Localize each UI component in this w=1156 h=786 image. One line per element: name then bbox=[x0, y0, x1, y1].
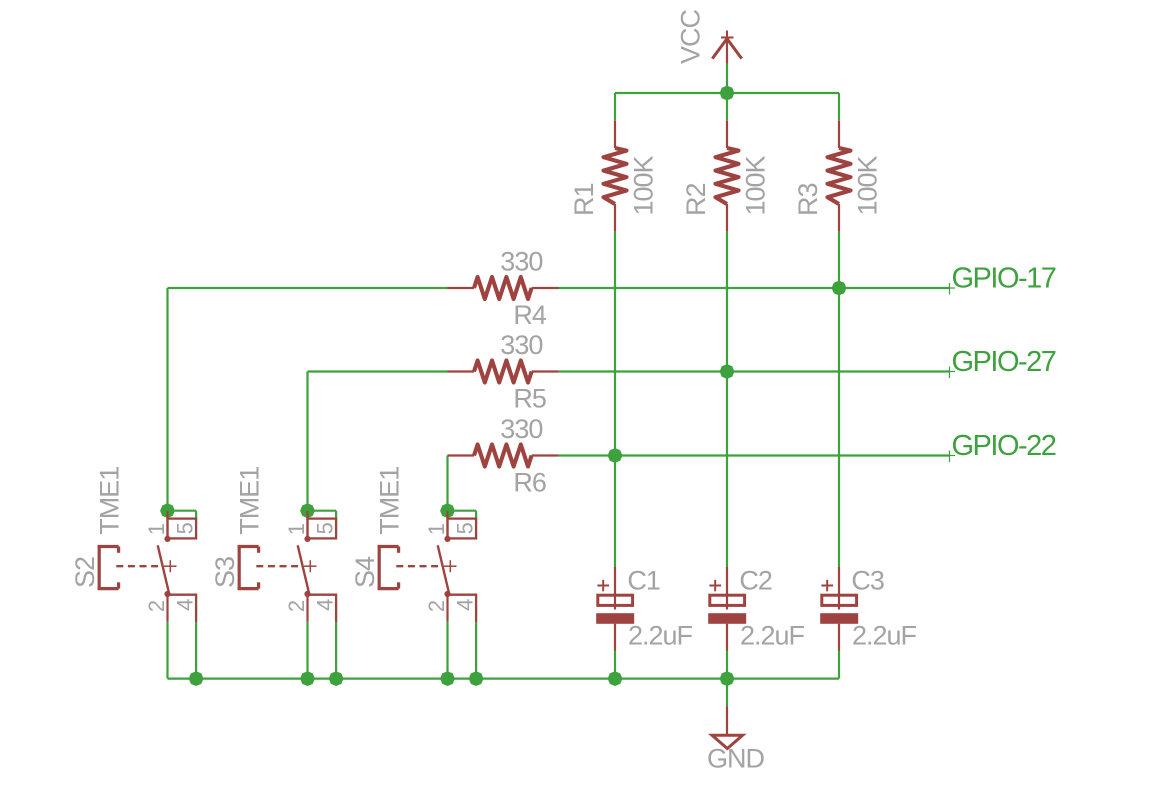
wire S2 pin2 to bus bbox=[166, 622, 168, 679]
pin 5 of S2 bbox=[173, 522, 198, 534]
wire C1 to bus bbox=[614, 651, 616, 679]
value 2.2uF of C3 bbox=[852, 621, 917, 651]
label R1 bbox=[569, 183, 599, 216]
wire column R1 to C1 bbox=[614, 232, 616, 567]
net label tick GPIO-17 bbox=[944, 283, 955, 295]
wire S4 pin5 link bbox=[448, 511, 477, 519]
svg-text:2.2uF: 2.2uF bbox=[740, 621, 805, 651]
svg-text:VCC: VCC bbox=[676, 9, 706, 64]
wire column R3 to C3 bbox=[838, 232, 840, 567]
svg-text:R4: R4 bbox=[513, 300, 546, 330]
label C1 bbox=[627, 565, 660, 595]
junction node GPIO-17 R3 bbox=[830, 279, 848, 297]
label S4 bbox=[350, 556, 380, 588]
value 2.2uF of C2 bbox=[740, 621, 805, 651]
svg-text:GPIO-27: GPIO-27 bbox=[952, 346, 1056, 378]
value 330 of R4 bbox=[500, 247, 542, 277]
wire column R2 to C2 bbox=[726, 232, 728, 567]
resistor R4 330 bbox=[448, 277, 559, 299]
wire S2 pin4 to bus bbox=[195, 622, 197, 679]
label R2 bbox=[681, 183, 711, 216]
svg-text:100K: 100K bbox=[629, 155, 659, 215]
wire column R1 upper bbox=[614, 93, 616, 121]
pin 4 of S2 bbox=[173, 599, 198, 611]
svg-text:5: 5 bbox=[313, 522, 338, 534]
pin 2 of S4 bbox=[424, 600, 449, 612]
junction node S3 top bbox=[299, 502, 317, 520]
pin 5 of S4 bbox=[453, 522, 478, 534]
svg-text:100K: 100K bbox=[741, 155, 771, 215]
resistor R3 100K bbox=[828, 121, 851, 232]
resistor R1 100K bbox=[604, 121, 627, 232]
junction node bus C1 bbox=[606, 670, 624, 688]
pin 1 of S3 bbox=[284, 523, 309, 535]
junction node S2 top bbox=[159, 502, 177, 520]
value 100K of R3 bbox=[853, 155, 883, 215]
value 330 of R6 bbox=[500, 414, 542, 444]
resistor R6 330 bbox=[448, 445, 559, 467]
svg-text:100K: 100K bbox=[853, 155, 883, 215]
net label GPIO-17 bbox=[952, 262, 1056, 294]
svg-text:GPIO-17: GPIO-17 bbox=[952, 262, 1056, 294]
junction node bus S4-4 bbox=[467, 670, 485, 688]
label S2 bbox=[70, 557, 100, 588]
junction node VCC bbox=[718, 84, 736, 102]
svg-text:R6: R6 bbox=[513, 468, 546, 498]
svg-text:2: 2 bbox=[424, 600, 449, 612]
junction node GPIO-27 R2 bbox=[718, 363, 736, 381]
svg-text:GND: GND bbox=[707, 744, 765, 774]
svg-text:R3: R3 bbox=[793, 183, 823, 216]
net label GPIO-22 bbox=[952, 430, 1056, 462]
wire ground bus bbox=[168, 677, 840, 679]
svg-text:1: 1 bbox=[144, 523, 169, 535]
wire S2 drop bbox=[166, 288, 168, 511]
svg-text:4: 4 bbox=[453, 599, 478, 611]
junction node bus S4-2 bbox=[439, 670, 457, 688]
svg-text:S4: S4 bbox=[350, 556, 380, 588]
switch S2 TME1 bbox=[98, 511, 197, 623]
svg-text:R2: R2 bbox=[681, 183, 711, 216]
switch S3 TME1 bbox=[238, 511, 337, 623]
wire S4 pin2 to bus bbox=[446, 622, 448, 679]
wire S3 pin2 to bus bbox=[306, 622, 308, 679]
wire C3 to bus bbox=[838, 651, 840, 679]
svg-text:R5: R5 bbox=[513, 384, 546, 414]
junction node bus S3-2 bbox=[299, 670, 317, 688]
wire S4 drop bbox=[446, 456, 448, 511]
value 330 of R5 bbox=[500, 330, 542, 360]
net label GPIO-27 bbox=[952, 346, 1056, 378]
junction node bus S3-4 bbox=[327, 670, 345, 688]
svg-text:S2: S2 bbox=[70, 557, 100, 588]
wire VCC stem bbox=[726, 64, 728, 93]
resistor R5 330 bbox=[448, 361, 559, 383]
junction node S4 top bbox=[439, 502, 457, 520]
wire GND stem bbox=[726, 679, 728, 707]
pin 2 of S3 bbox=[284, 600, 309, 612]
switch S4 TME1 bbox=[378, 511, 477, 623]
svg-text:2.2uF: 2.2uF bbox=[628, 621, 693, 651]
wire column R3 upper bbox=[838, 93, 840, 121]
value TME1 of S3 bbox=[235, 467, 265, 535]
ground symbol GND bbox=[712, 707, 743, 749]
capacitor C2 polarized bbox=[708, 567, 746, 651]
wire S2 pin5 link bbox=[168, 511, 197, 519]
wire GPIO-17 left bbox=[168, 287, 448, 289]
label R3 bbox=[793, 183, 823, 216]
power symbol VCC bbox=[712, 31, 741, 64]
svg-text:TME1: TME1 bbox=[375, 467, 405, 535]
capacitor C1 polarized bbox=[596, 567, 634, 651]
svg-text:1: 1 bbox=[284, 523, 309, 535]
value TME1 of S4 bbox=[375, 467, 405, 535]
label GND bbox=[707, 744, 765, 774]
svg-text:GPIO-22: GPIO-22 bbox=[952, 430, 1056, 462]
wire GPIO-17 right bbox=[559, 287, 950, 289]
svg-text:2: 2 bbox=[284, 600, 309, 612]
svg-text:330: 330 bbox=[500, 247, 542, 277]
junction node bus S2-4 bbox=[187, 670, 205, 688]
pin 2 of S2 bbox=[144, 600, 169, 612]
wire S4 pin4 to bus bbox=[475, 622, 477, 679]
wire GPIO-22 right bbox=[559, 454, 950, 456]
pin 1 of S2 bbox=[144, 523, 169, 535]
net label tick GPIO-27 bbox=[944, 367, 955, 379]
label C2 bbox=[739, 565, 772, 595]
wire S3 drop bbox=[306, 372, 308, 511]
pin 4 of S4 bbox=[453, 599, 478, 611]
value 100K of R1 bbox=[629, 155, 659, 215]
svg-text:C3: C3 bbox=[851, 565, 884, 595]
svg-text:2.2uF: 2.2uF bbox=[852, 621, 917, 651]
label R6 bbox=[513, 468, 546, 498]
label VCC bbox=[676, 9, 706, 64]
svg-text:5: 5 bbox=[453, 522, 478, 534]
junction node GPIO-22 R1 bbox=[606, 447, 624, 465]
svg-text:4: 4 bbox=[313, 599, 338, 611]
svg-text:2: 2 bbox=[144, 600, 169, 612]
capacitor C3 polarized bbox=[820, 567, 858, 651]
svg-text:S3: S3 bbox=[210, 557, 240, 588]
label R4 bbox=[513, 300, 546, 330]
value 100K of R2 bbox=[741, 155, 771, 215]
wire S3 pin4 to bus bbox=[335, 622, 337, 679]
wire VCC top rail bbox=[615, 92, 839, 94]
wire GPIO-27 right bbox=[559, 370, 950, 372]
wire column R2 upper bbox=[726, 93, 728, 121]
svg-text:4: 4 bbox=[173, 599, 198, 611]
label C3 bbox=[851, 565, 884, 595]
svg-text:C2: C2 bbox=[739, 565, 772, 595]
value TME1 of S2 bbox=[95, 467, 125, 535]
svg-text:TME1: TME1 bbox=[235, 467, 265, 535]
svg-text:5: 5 bbox=[173, 522, 198, 534]
svg-text:330: 330 bbox=[500, 330, 542, 360]
resistor R2 100K bbox=[716, 121, 739, 232]
net label tick GPIO-22 bbox=[944, 451, 955, 463]
svg-text:R1: R1 bbox=[569, 183, 599, 216]
pin 1 of S4 bbox=[424, 523, 449, 535]
label S3 bbox=[210, 557, 240, 588]
svg-text:1: 1 bbox=[424, 523, 449, 535]
wire S3 pin5 link bbox=[308, 511, 337, 519]
wire C2 to bus bbox=[726, 651, 728, 679]
junction node bus GND bbox=[718, 670, 736, 688]
value 2.2uF of C1 bbox=[628, 621, 693, 651]
label R5 bbox=[513, 384, 546, 414]
svg-text:C1: C1 bbox=[627, 565, 660, 595]
wire GPIO-27 left bbox=[308, 370, 448, 372]
pin 5 of S3 bbox=[313, 522, 338, 534]
pin 4 of S3 bbox=[313, 599, 338, 611]
svg-text:TME1: TME1 bbox=[95, 467, 125, 535]
svg-text:330: 330 bbox=[500, 414, 542, 444]
